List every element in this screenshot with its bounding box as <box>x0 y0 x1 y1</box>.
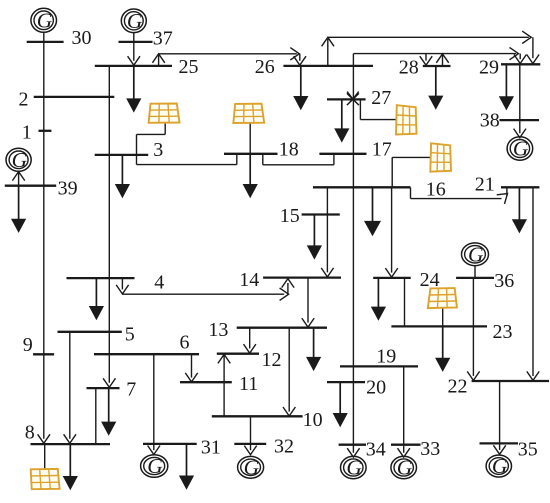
load at bus 31 <box>179 444 194 490</box>
bus 29 label <box>479 57 499 79</box>
bus 39 bar <box>5 185 56 187</box>
svg-text:23: 23 <box>493 321 513 343</box>
PV panel at bus 3 <box>149 104 180 123</box>
wire 13-10 <box>283 328 295 416</box>
svg-text:G: G <box>244 456 260 480</box>
wire 5-8 <box>64 332 76 443</box>
bus 33 bar <box>391 444 421 446</box>
wire generator 37 to bus 37 and bus 25 <box>128 33 140 65</box>
bus 23 label <box>493 321 513 343</box>
generator G33 at bus 33 <box>391 456 417 480</box>
bus 3 bar <box>95 154 149 156</box>
svg-text:7: 7 <box>126 379 136 401</box>
wire 13-12 <box>244 328 256 353</box>
wire PV17 to bus 16 <box>392 157 431 187</box>
bus 36 bar <box>456 277 494 279</box>
bus 26 label <box>255 56 275 78</box>
bus 22 bar <box>472 380 549 382</box>
svg-text:G: G <box>147 454 163 478</box>
wire bus 28 up-tap <box>436 54 448 66</box>
load at bus 39 <box>11 186 26 233</box>
wire 26-29 (upper link) <box>322 31 539 65</box>
generator G31 at bus 31 <box>141 454 168 478</box>
bus 36 label <box>494 270 514 292</box>
load at bus 8 <box>63 444 78 490</box>
PV panel at bus 18 <box>233 104 264 123</box>
bus 24 bar <box>373 277 411 279</box>
bus 32 label <box>274 435 294 457</box>
svg-text:35: 35 <box>518 439 538 461</box>
svg-text:G: G <box>37 9 53 33</box>
wire 26-27-17-16-19-20-34 (long trunk) <box>347 54 359 458</box>
PV panel at bus 17 <box>430 143 451 171</box>
generator G35 at bus 35 <box>486 454 511 478</box>
svg-text:36: 36 <box>494 270 514 292</box>
svg-text:28: 28 <box>399 57 419 79</box>
wire 36-23-22 <box>467 278 479 380</box>
svg-text:20: 20 <box>366 376 386 398</box>
load at bus 3 <box>115 155 130 198</box>
crossing X at bus 27 <box>347 92 359 106</box>
bus 17 label <box>372 139 392 161</box>
bus 30 bar <box>27 41 64 43</box>
svg-text:33: 33 <box>420 438 440 460</box>
bus 33 label <box>420 438 440 460</box>
svg-text:25: 25 <box>179 56 199 78</box>
bus 14 label <box>239 269 259 291</box>
wire 39 to generator 39 <box>12 172 24 186</box>
bus 10 label <box>303 409 323 431</box>
bus 32 bar <box>234 443 266 445</box>
load at bus 27 <box>334 100 349 143</box>
wire 16-24 <box>385 188 397 278</box>
svg-text:31: 31 <box>201 436 221 458</box>
wire 25-26 <box>152 48 306 66</box>
bus 8 label <box>25 422 35 444</box>
wire 3-18 (stepped) <box>137 154 237 165</box>
wire PV27 to bus 27 <box>360 100 396 120</box>
svg-text:18: 18 <box>279 139 299 161</box>
bus 14 bar <box>263 276 341 278</box>
bus 31 bar <box>143 443 197 445</box>
svg-text:G: G <box>12 148 28 172</box>
generator G34 at bus 34 <box>341 456 367 480</box>
svg-text:11: 11 <box>239 373 258 395</box>
svg-text:5: 5 <box>125 323 135 345</box>
svg-text:9: 9 <box>23 334 33 356</box>
bus 35 label <box>518 439 538 461</box>
load at bus 4 <box>89 278 104 320</box>
svg-text:8: 8 <box>25 422 35 444</box>
bus 9 label <box>23 334 33 356</box>
bus 5 bar <box>58 331 122 333</box>
wire PV8 to bus 8 <box>44 444 46 469</box>
bus 2 bar <box>34 96 115 98</box>
svg-text:30: 30 <box>72 27 92 49</box>
load at bus 20 <box>333 382 348 427</box>
generator G36 at bus 36 <box>462 243 489 267</box>
bus 37 label <box>153 28 173 50</box>
bus 26 bar <box>283 65 373 67</box>
bus 7 label <box>126 379 136 401</box>
bus 9 bar <box>33 353 54 355</box>
wire 4-14 (stepped) <box>116 278 294 300</box>
wire 7-8 <box>95 388 97 444</box>
bus 28 label <box>399 57 419 79</box>
bus 1 label <box>22 121 32 143</box>
bus 3 label <box>153 139 163 161</box>
bus 4 label <box>154 271 164 293</box>
bus 6 label <box>180 332 190 354</box>
svg-text:24: 24 <box>420 269 440 291</box>
load at bus 16 <box>364 188 381 237</box>
wire 22-35 to generator 35 <box>493 381 505 454</box>
bus 25 bar <box>95 65 172 67</box>
svg-text:G: G <box>468 243 484 267</box>
svg-text:G: G <box>513 137 529 161</box>
svg-text:10: 10 <box>303 409 323 431</box>
svg-text:6: 6 <box>180 332 190 354</box>
generator G38 at bus 38 <box>507 137 533 161</box>
load at bus 24 <box>371 278 386 321</box>
svg-text:39: 39 <box>58 178 78 200</box>
svg-text:21: 21 <box>475 173 495 195</box>
svg-text:37: 37 <box>153 28 173 50</box>
bus 21 bar <box>501 186 539 188</box>
bus 22 label <box>448 376 468 398</box>
PV panel at bus 8 <box>31 469 60 489</box>
load at bus 28 <box>428 66 443 110</box>
bus 24 label <box>420 269 440 291</box>
load at bus 21 <box>512 188 527 234</box>
wire 25-2-3-4-5-7 (second trunk) <box>103 66 115 387</box>
svg-text:12: 12 <box>262 349 282 371</box>
bus 16 label <box>426 179 446 201</box>
bus 13 label <box>208 319 228 341</box>
bus 18 label <box>279 139 299 161</box>
load at bus 23 (below PV24 tap) <box>435 326 450 372</box>
svg-text:G: G <box>346 456 362 480</box>
wire 12-11-10 <box>218 354 230 416</box>
bus 20 bar <box>327 381 365 383</box>
load at bus 29 <box>499 65 514 111</box>
svg-text:G: G <box>492 454 508 478</box>
bus 7 bar <box>87 387 120 389</box>
bus 4 bar <box>67 277 135 279</box>
bus 15 label <box>280 205 300 227</box>
bus 23 bar <box>391 325 487 327</box>
generator G32 at bus 32 <box>238 456 264 480</box>
bus 1 bar <box>39 130 52 132</box>
bus 19 label <box>376 345 396 367</box>
bus 18 bar <box>224 153 278 155</box>
load at bus 26 <box>293 66 308 110</box>
bus 11 bar <box>180 381 232 383</box>
wire 16-15-14 <box>321 188 333 277</box>
svg-text:34: 34 <box>366 439 386 461</box>
generator G37 at bus 37 <box>121 9 146 33</box>
svg-text:27: 27 <box>371 87 391 109</box>
svg-text:16: 16 <box>426 179 446 201</box>
wire 6-11 <box>185 354 197 382</box>
bus 38 bar <box>500 119 540 121</box>
bus 21 label <box>475 173 495 195</box>
load at bus 13 <box>306 328 321 371</box>
load at bus 7 <box>101 388 116 436</box>
bus 11 label <box>239 373 258 395</box>
wire branch to bus 28 <box>420 54 432 66</box>
svg-text:17: 17 <box>372 139 392 161</box>
wire PV3 to bus 3 <box>137 123 166 165</box>
wire 29-38 to generator 38 <box>514 65 526 138</box>
bus 19 bar <box>340 365 418 367</box>
svg-text:22: 22 <box>448 376 468 398</box>
load at bus 15 <box>307 215 322 260</box>
svg-text:29: 29 <box>479 57 499 79</box>
svg-text:4: 4 <box>154 271 164 293</box>
bus 8 bar <box>31 443 111 445</box>
bus 34 label <box>366 439 386 461</box>
wire 14-13 <box>302 278 314 327</box>
svg-text:13: 13 <box>208 319 228 341</box>
bus 16 bar <box>313 186 411 188</box>
svg-text:2: 2 <box>19 89 29 111</box>
bus 39 label <box>58 178 78 200</box>
bus 28 bar <box>423 65 451 67</box>
svg-text:19: 19 <box>376 345 396 367</box>
PV panel at bus 27 <box>396 105 417 134</box>
svg-text:15: 15 <box>280 205 300 227</box>
wire 21-22 <box>527 188 539 381</box>
bus 38 label <box>480 110 500 132</box>
wire 24-23 <box>404 278 406 326</box>
wire 18-17 (stepped) <box>263 154 334 165</box>
wire PV18 to bus 18 <box>249 123 251 154</box>
load at bus 18 <box>243 154 258 198</box>
bus 12 label <box>262 349 282 371</box>
bus 20 label <box>366 376 386 398</box>
bus 15 bar <box>302 213 340 215</box>
PV panel at bus 24 <box>428 288 457 308</box>
wire 6-31 to generator 31 <box>148 354 160 454</box>
bus 5 label <box>125 323 135 345</box>
svg-text:38: 38 <box>480 110 500 132</box>
bus 30 label <box>72 27 92 49</box>
wire 27-28-29 (second link) <box>353 47 526 63</box>
bus 10 bar <box>212 415 303 417</box>
bus 27 bar <box>327 98 366 100</box>
wire generator 36 to bus 36 <box>474 266 476 278</box>
bus 29 bar <box>501 63 540 65</box>
bus 35 bar <box>480 442 519 444</box>
bus 2 label <box>19 89 29 111</box>
bus 17 bar <box>319 153 366 155</box>
bus 31 label <box>201 436 221 458</box>
bus 6 bar <box>94 353 199 355</box>
svg-text:3: 3 <box>153 139 163 161</box>
generator G39 at bus 39 <box>6 148 31 172</box>
bus 12 bar <box>217 353 259 355</box>
svg-text:G: G <box>127 9 143 33</box>
wire 10-32 to generator 32 <box>244 417 256 455</box>
wire 16-21 (stepped) <box>411 188 512 204</box>
svg-text:32: 32 <box>274 435 294 457</box>
svg-text:14: 14 <box>239 269 259 291</box>
bus 37 bar <box>119 41 153 43</box>
load at bus 25 <box>126 66 141 112</box>
generator G30 at bus 30 <box>31 8 57 32</box>
bus 34 bar <box>339 444 366 446</box>
svg-text:G: G <box>397 456 413 480</box>
svg-text:1: 1 <box>22 121 32 143</box>
bus 27 label <box>371 87 391 109</box>
svg-text:26: 26 <box>255 56 275 78</box>
wire 30-2-1-39-9-8 (left trunk) <box>38 33 50 444</box>
bus 13 bar <box>237 327 327 329</box>
wire PV24 to bus 23 and load <box>442 308 444 326</box>
wire 19-33 to generator 33 <box>398 367 410 458</box>
bus 25 label <box>179 56 199 78</box>
